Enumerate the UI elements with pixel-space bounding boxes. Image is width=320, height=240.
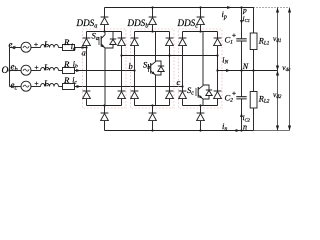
- wire RL1 to RL2 through N: [253, 50, 255, 92]
- wire bottom bus extension: [254, 130, 290, 132]
- current arrow ia: [82, 46, 86, 49]
- current arrow iC1: [240, 20, 243, 24]
- polarity + of ec: [35, 82, 39, 86]
- diode Dnc to n bus: [200, 106, 202, 131]
- wire module b bottom rail: [135, 105, 170, 107]
- diode Dpb to p bus: [152, 8, 154, 32]
- switch Sb IGBT: [148, 64, 150, 72]
- svg-text:N: N: [242, 62, 249, 71]
- svg-text:ia: ia: [71, 42, 76, 52]
- svg-text:L: L: [43, 62, 49, 72]
- diode a left top: [86, 32, 88, 92]
- wire module c bottom rail: [183, 105, 218, 107]
- capacitor C1: [236, 39, 246, 41]
- wire bottom bus n (solid part): [105, 130, 254, 132]
- resistor R phase c: [63, 84, 75, 90]
- svg-text:ea: ea: [9, 40, 16, 52]
- wire left source bus O: [9, 48, 11, 87]
- polarity + of eb: [35, 66, 39, 70]
- node mid-c: [216, 54, 218, 56]
- wire N line: [218, 70, 278, 72]
- svg-text:ic: ic: [72, 75, 77, 85]
- polarity + of C2: [232, 92, 236, 96]
- wire ea left: [10, 47, 22, 49]
- node rail-a top: [103, 30, 105, 32]
- svg-text:ib: ib: [73, 59, 78, 69]
- wire a resistor-node: [75, 47, 87, 49]
- wire c resistor-node: [75, 86, 183, 88]
- wire top bus p (solid part): [105, 7, 254, 9]
- svg-text:C1: C1: [225, 34, 234, 45]
- switch Sc IGBT: [195, 88, 197, 96]
- current arrow iN: [226, 69, 230, 72]
- svg-text:Sc: Sc: [187, 85, 194, 97]
- inductor L phase a: [41, 45, 59, 48]
- current arrow in: [236, 129, 240, 132]
- diode Dpa to p bus: [104, 8, 106, 32]
- node p-rail: [240, 6, 242, 8]
- source eb: [21, 65, 31, 75]
- svg-text:iN: iN: [222, 55, 228, 65]
- svg-text:O: O: [2, 66, 9, 76]
- current arrow iC2: [240, 113, 243, 117]
- node N-leg: [216, 69, 218, 71]
- svg-text:C2: C2: [225, 92, 234, 103]
- wire c coil-resistor: [59, 86, 63, 88]
- wire top bus dotted extension: [254, 7, 290, 9]
- diode b right top: [169, 32, 171, 92]
- measurement line vd1/vd2: [277, 8, 279, 131]
- inductor L phase b: [41, 68, 59, 71]
- wire eb left: [10, 70, 22, 72]
- diode a right top: [121, 32, 123, 92]
- svg-text:L: L: [43, 78, 49, 88]
- svg-text:n: n: [243, 123, 247, 132]
- svg-text:iC1: iC1: [243, 14, 250, 23]
- wire a coil-resistor: [59, 47, 63, 49]
- diode Dpc to p bus: [200, 8, 202, 32]
- svg-text:ec: ec: [11, 80, 18, 92]
- DDS_a module box: [83, 29, 127, 108]
- diode a right bottom: [121, 99, 123, 106]
- node p-c: [199, 6, 201, 8]
- diode c left bottom: [182, 99, 184, 106]
- wire load branch bottom: [253, 108, 255, 131]
- diode Sa antiparallel: [105, 32, 113, 49]
- diode Sb antiparallel: [156, 61, 162, 75]
- wire midpoint line (right legs to N): [122, 55, 218, 57]
- wire eb right: [31, 70, 41, 72]
- wire Sb emitter column: [155, 75, 157, 106]
- node n-rail: [240, 129, 242, 131]
- wire DC rail top: [241, 8, 243, 39]
- current arrow ib: [76, 69, 80, 72]
- svg-text:Sb: Sb: [143, 60, 150, 72]
- wire ec right: [31, 86, 41, 88]
- wire b resistor-node: [75, 70, 135, 72]
- svg-text:in: in: [222, 121, 227, 133]
- diode b right bottom: [169, 99, 171, 106]
- wire b coil-resistor: [59, 70, 63, 72]
- wire ec left: [10, 86, 22, 88]
- wire Sc collector column: [202, 32, 204, 83]
- node c: [181, 85, 183, 87]
- node rail-a bottom: [103, 104, 105, 106]
- svg-text:iC2: iC2: [243, 113, 251, 122]
- diode c right bottom: [217, 99, 219, 106]
- current arrow ic: [77, 85, 81, 88]
- wire module c top rail: [183, 31, 218, 33]
- resistor R phase a: [63, 45, 75, 51]
- node O: [8, 69, 10, 71]
- switch Sa IGBT: [98, 37, 100, 45]
- svg-text:R: R: [63, 37, 70, 47]
- diode c right top: [217, 32, 219, 92]
- resistor R phase b: [63, 68, 75, 74]
- node a: [85, 46, 87, 48]
- node b: [133, 69, 135, 71]
- DDS_c module box: [179, 29, 223, 108]
- node rail-b top: [151, 30, 153, 32]
- capacitor C2: [236, 97, 246, 99]
- DDS_b module box: [131, 29, 175, 108]
- svg-text:R: R: [63, 75, 70, 85]
- svg-text:DDSa: DDSa: [76, 18, 98, 30]
- source ec: [21, 81, 31, 91]
- wire load branch top: [253, 8, 255, 34]
- resistor RL1: [250, 33, 257, 50]
- current arrow ip: [227, 6, 231, 9]
- wire module a bottom rail: [87, 105, 122, 107]
- svg-text:DDSc: DDSc: [177, 18, 199, 30]
- polarity + of C1: [232, 34, 236, 38]
- node rail-c bottom: [199, 104, 201, 106]
- svg-text:RL2: RL2: [258, 94, 270, 104]
- diode b left bottom: [134, 99, 136, 106]
- node n-c: [199, 129, 201, 131]
- svg-text:DDSb: DDSb: [127, 18, 149, 30]
- diode a left bottom: [86, 99, 88, 106]
- resistor RL2: [250, 92, 257, 109]
- wire DC rail middle: [241, 41, 243, 96]
- inductor L phase c: [41, 84, 59, 87]
- svg-text:L: L: [43, 39, 49, 49]
- wire module a top rail: [87, 31, 122, 33]
- svg-text:RL1: RL1: [258, 36, 270, 46]
- svg-text:a: a: [82, 48, 86, 58]
- diode Dnb to n bus: [152, 106, 154, 131]
- node N-load: [252, 69, 254, 71]
- node mid-a: [120, 54, 122, 56]
- node mid-b: [168, 54, 170, 56]
- wire Sc emitter column: [202, 99, 204, 106]
- node rail-c top: [199, 30, 201, 32]
- diode Dna to n bus: [104, 106, 106, 131]
- diode c left top: [182, 32, 184, 92]
- measurement line vdc: [289, 8, 291, 131]
- wire Sb collector column: [155, 32, 157, 59]
- wire ea right: [31, 47, 41, 49]
- wire module b top rail: [135, 31, 170, 33]
- svg-text:Sa: Sa: [92, 31, 99, 43]
- diode b left top: [134, 32, 136, 92]
- diode Sc antiparallel: [203, 85, 209, 99]
- svg-text:R: R: [63, 59, 70, 69]
- polarity + of ea: [34, 43, 38, 47]
- wire DC rail bottom: [241, 99, 243, 130]
- node p-b: [151, 6, 153, 8]
- source ea: [21, 42, 31, 52]
- wire Sa emitter column: [104, 48, 106, 106]
- node rail-b bottom: [151, 104, 153, 106]
- node n-b: [151, 129, 153, 131]
- svg-text:ip: ip: [222, 9, 227, 21]
- svg-text:eb: eb: [11, 62, 18, 74]
- node N-rail: [240, 69, 242, 71]
